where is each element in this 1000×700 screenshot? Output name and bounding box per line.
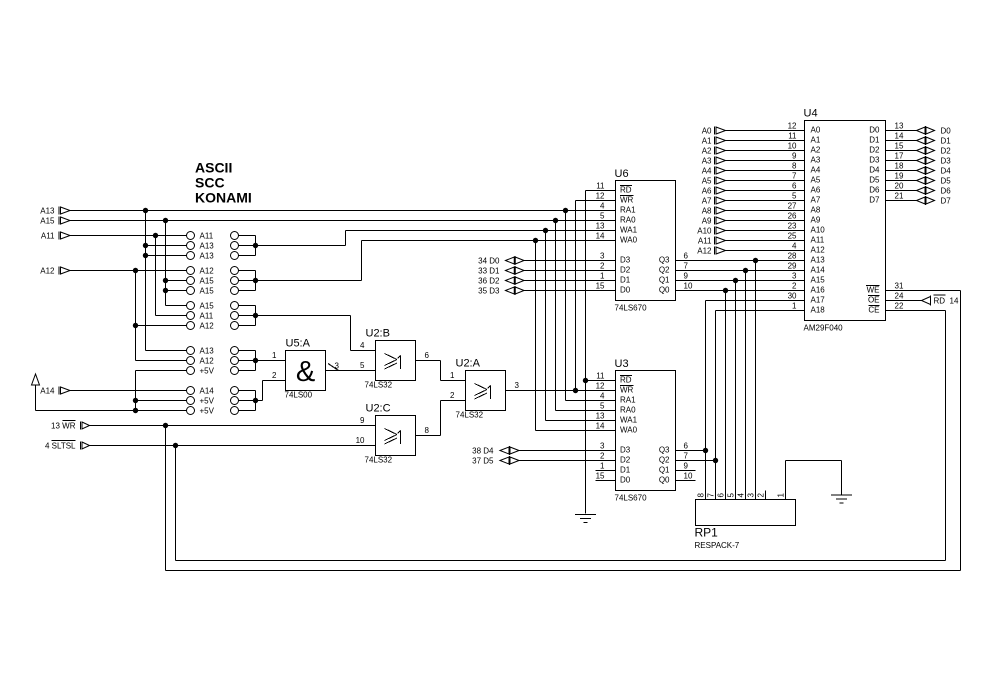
bidirectional terminal D5 at U4 [886, 176, 952, 186]
svg-text:A5: A5 [702, 177, 712, 186]
svg-text:A9: A9 [811, 216, 821, 225]
svg-text:D0: D0 [869, 126, 880, 135]
svg-text:D5: D5 [869, 176, 880, 185]
svg-text:A15: A15 [200, 287, 215, 296]
junction dot WR gate net [573, 388, 578, 393]
svg-text:13 WR: 13 WR [51, 422, 76, 431]
svg-text:23: 23 [788, 222, 797, 231]
wire RA0 drop to U3 pin 5 [556, 221, 616, 411]
svg-text:18: 18 [895, 162, 904, 171]
svg-text:A13: A13 [40, 207, 55, 216]
wire A11 net (terminal to jumper rows) [70, 236, 187, 316]
svg-text:29: 29 [788, 262, 797, 271]
svg-text:D1: D1 [869, 136, 880, 145]
svg-text:KONAMI: KONAMI [195, 190, 252, 206]
svg-text:A8: A8 [811, 206, 821, 215]
svg-text:24: 24 [895, 292, 904, 301]
svg-text:D0: D0 [620, 286, 631, 295]
wire group3 common to U2:B pin 4 [256, 316, 376, 351]
svg-text:37 D5: 37 D5 [472, 457, 494, 466]
svg-text:A1: A1 [811, 136, 821, 145]
svg-text:Q0: Q0 [659, 476, 670, 485]
svg-text:A13: A13 [200, 347, 215, 356]
svg-text:10: 10 [684, 472, 693, 481]
gate U2:B 74LS32 OR [365, 328, 416, 390]
wire U2:A output (WR net) to U6/U3 pin 12 [506, 201, 616, 391]
svg-text:WE: WE [867, 286, 880, 295]
U6 pin numbers [596, 182, 693, 291]
svg-text:U2:C: U2:C [366, 403, 391, 415]
svg-text:6: 6 [684, 442, 689, 451]
svg-text:1: 1 [272, 351, 277, 360]
svg-text:D3: D3 [869, 156, 880, 165]
svg-text:A12: A12 [200, 357, 215, 366]
svg-text:4 SLTSL: 4 SLTSL [45, 442, 76, 451]
input terminal A12 at U4 [697, 247, 804, 256]
svg-text:A3: A3 [811, 156, 821, 165]
svg-text:Q3: Q3 [659, 256, 670, 265]
svg-text:20: 20 [895, 182, 904, 191]
svg-text:RA1: RA1 [620, 396, 636, 405]
svg-text:RESPACK-7: RESPACK-7 [695, 541, 740, 550]
input terminal A5 at U4 [702, 177, 805, 186]
svg-text:D3: D3 [620, 446, 631, 455]
svg-text:OE: OE [868, 296, 880, 305]
bidirectional terminal D7 at U4 [886, 196, 952, 206]
power terminal +5V [32, 374, 40, 411]
svg-text:4: 4 [792, 242, 797, 251]
svg-text:2: 2 [272, 371, 277, 380]
svg-text:A11: A11 [200, 312, 214, 321]
svg-text:D0: D0 [941, 127, 952, 136]
svg-text:74LS32: 74LS32 [456, 411, 484, 420]
svg-text:34 D0: 34 D0 [478, 257, 500, 266]
svg-text:A13: A13 [200, 252, 215, 261]
junction dot WA1 net [543, 228, 548, 233]
svg-text:A10: A10 [697, 227, 712, 236]
svg-text:A4: A4 [702, 167, 712, 176]
wire group1 common to U6 WA1 [256, 231, 616, 246]
svg-text:7: 7 [792, 172, 797, 181]
wire jumper group 2 common [239, 271, 256, 291]
input terminal 13 WR [51, 421, 89, 431]
svg-text:15: 15 [596, 282, 605, 291]
svg-text:8: 8 [697, 493, 706, 498]
resistor pack RP1 RESPACK-7 [695, 500, 796, 551]
title text ASCII SCC KONAMI [195, 160, 252, 206]
svg-text:4: 4 [360, 341, 365, 350]
wire WA0 drop to U3 pin 14 [536, 241, 616, 431]
IC U6 74LS670 register file [615, 168, 676, 313]
svg-text:A11: A11 [200, 232, 214, 241]
svg-text:6: 6 [425, 351, 430, 360]
svg-text:A2: A2 [811, 146, 821, 155]
input terminal A2 at U4 [702, 147, 805, 156]
wire U4 WE to right-edge run [886, 290, 961, 292]
svg-text:WA1: WA1 [620, 226, 638, 235]
svg-text:RD: RD [620, 186, 632, 195]
svg-text:AM29F040: AM29F040 [804, 324, 844, 333]
bidirectional terminal 34 D0 [478, 256, 615, 266]
svg-text:13: 13 [895, 122, 904, 131]
svg-text:1: 1 [792, 302, 797, 311]
svg-text:A6: A6 [811, 186, 821, 195]
svg-text:RD: RD [620, 376, 632, 385]
svg-text:Q2: Q2 [659, 266, 670, 275]
svg-text:9: 9 [360, 416, 365, 425]
wire U5:A output to U2:B pin 5 [326, 370, 376, 372]
junction dot WR terminal net [163, 423, 168, 428]
svg-text:RD: RD [934, 297, 946, 306]
svg-text:12: 12 [596, 382, 605, 391]
wire RP1 pin 1 to ground [786, 461, 842, 500]
svg-text:6: 6 [717, 493, 726, 498]
svg-text:22: 22 [895, 302, 904, 311]
input terminal A12 [40, 267, 70, 276]
svg-text:74LS32: 74LS32 [365, 456, 393, 465]
bidirectional terminal 33 D1 [478, 266, 615, 276]
svg-text:15: 15 [895, 142, 904, 151]
svg-text:A11: A11 [811, 236, 825, 245]
wire U6 Q2 to U4 A14 and RP1 pin 4 [676, 268, 805, 500]
wire jumper group 3 common [239, 306, 256, 326]
svg-text:3: 3 [515, 381, 520, 390]
wire A13 net (terminal to U6 RA1, jumper rows, U5:A) [70, 211, 616, 351]
svg-text:A13: A13 [811, 256, 826, 265]
svg-text:A12: A12 [200, 322, 215, 331]
svg-text:3: 3 [747, 493, 756, 498]
wire SLTSL terminal to U2:C pin 10 and to U4 CE [90, 311, 946, 561]
svg-text:&: & [296, 356, 315, 388]
svg-text:WA0: WA0 [620, 426, 638, 435]
wire WA1 drop to U3 pin 13 [546, 231, 616, 421]
svg-text:15: 15 [596, 472, 605, 481]
junction dot A11 net [153, 233, 158, 238]
svg-text:2: 2 [757, 493, 766, 498]
svg-text:D2: D2 [941, 147, 952, 156]
svg-text:11: 11 [788, 132, 797, 141]
svg-text:D4: D4 [869, 166, 880, 175]
svg-text:1: 1 [450, 371, 455, 380]
junction dot jumper group 3 [253, 313, 258, 318]
svg-text:33 D1: 33 D1 [478, 267, 500, 276]
svg-text:3: 3 [600, 252, 605, 261]
junction dot jumper group 5 [253, 398, 258, 403]
svg-text:WA1: WA1 [620, 416, 638, 425]
bidirectional terminal 38 D4 [472, 446, 615, 456]
svg-text:38 D4: 38 D4 [472, 447, 494, 456]
svg-text:28: 28 [788, 252, 797, 261]
wire jumper group 4 common [239, 351, 256, 371]
junction dot SLTSL terminal net [173, 443, 178, 448]
svg-text:RA0: RA0 [620, 216, 636, 225]
svg-text:A15: A15 [200, 302, 215, 311]
input terminal A6 at U4 [702, 187, 805, 196]
svg-text:A7: A7 [811, 196, 821, 205]
wire U3 Q2 to U4 A18 and RP1 pin 7 [676, 311, 805, 500]
wire RA1 drop to U3 pin 4 [566, 211, 616, 401]
svg-text:25: 25 [788, 232, 797, 241]
bidirectional terminal D6 at U4 [886, 186, 952, 196]
svg-text:RA0: RA0 [620, 406, 636, 415]
junction dot RA1 [563, 208, 568, 213]
svg-text:A15: A15 [811, 276, 826, 285]
junction dot jumper group 2 [253, 278, 258, 283]
IC U3 74LS670 register file [615, 358, 676, 503]
svg-text:2: 2 [600, 452, 605, 461]
junction dot RD net at U3 pin 11 [583, 378, 588, 383]
U5:A output inversion slash [328, 364, 339, 371]
gate U2:A 74LS32 OR [456, 358, 506, 420]
svg-text:17: 17 [895, 152, 904, 161]
svg-text:D2: D2 [620, 456, 631, 465]
svg-text:A2: A2 [702, 147, 712, 156]
svg-text:2: 2 [450, 391, 455, 400]
junction dot jumper group 4 [253, 358, 258, 363]
input terminal A13 [40, 207, 70, 216]
svg-text:3: 3 [600, 442, 605, 451]
svg-text:D6: D6 [941, 187, 952, 196]
svg-text:36 D2: 36 D2 [478, 277, 500, 286]
svg-text:A4: A4 [811, 166, 821, 175]
svg-text:A16: A16 [811, 286, 826, 295]
svg-text:SCC: SCC [195, 175, 225, 191]
svg-text:4: 4 [600, 392, 605, 401]
U3 unconnected output stubs Q1 Q0 [676, 471, 696, 481]
svg-text:+5V: +5V [200, 407, 215, 416]
svg-text:74LS00: 74LS00 [285, 391, 313, 400]
ground symbol at RP1 [831, 495, 852, 503]
svg-text:26: 26 [788, 212, 797, 221]
junction dots +5V net [133, 398, 138, 413]
bidirectional terminal D1 at U4 [886, 136, 952, 146]
svg-text:Q2: Q2 [659, 456, 670, 465]
svg-text:7: 7 [684, 262, 689, 271]
svg-text:7: 7 [707, 493, 716, 498]
wire RD net: U6 pin 11 and U3 pin 11 to ground [586, 191, 616, 514]
jumper pads left column with labels [187, 232, 215, 416]
svg-text:A7: A7 [702, 197, 712, 206]
svg-text:WR: WR [620, 386, 634, 395]
IC U4 AM29F040 flash memory [804, 108, 886, 333]
svg-text:8: 8 [425, 426, 430, 435]
svg-text:A5: A5 [811, 176, 821, 185]
svg-text:11: 11 [596, 372, 605, 381]
svg-text:2: 2 [600, 262, 605, 271]
svg-text:A0: A0 [702, 127, 712, 136]
svg-text:13: 13 [596, 222, 605, 231]
svg-text:D7: D7 [941, 197, 952, 206]
svg-text:U3: U3 [615, 358, 629, 370]
input terminal A15 [40, 217, 70, 226]
svg-text:14: 14 [596, 232, 605, 241]
svg-text:U2:A: U2:A [456, 358, 481, 370]
junction dots A15 net [163, 218, 168, 293]
svg-text:A1: A1 [702, 137, 712, 146]
input terminal A14 [40, 387, 70, 396]
bidirectional terminal 37 D5 [472, 456, 615, 466]
wire group2 common to U6 WA0 [256, 241, 616, 281]
svg-text:Q3: Q3 [659, 446, 670, 455]
svg-text:D5: D5 [941, 177, 952, 186]
svg-text:D1: D1 [620, 276, 631, 285]
svg-text:Q0: Q0 [659, 286, 670, 295]
input terminal A4 at U4 [702, 167, 805, 176]
wire U3 Q3 to U4 A17 and RP1 pin 8 [676, 301, 805, 500]
input terminal A9 at U4 [702, 217, 805, 226]
svg-text:Q1: Q1 [659, 466, 670, 475]
svg-text:D2: D2 [620, 266, 631, 275]
wire A15 net (terminal to U6 RA0, jumper rows) [70, 221, 616, 306]
svg-text:A11: A11 [698, 237, 712, 246]
svg-text:10: 10 [684, 282, 693, 291]
gate U2:C 74LS32 OR [365, 403, 416, 465]
svg-text:A8: A8 [702, 207, 712, 216]
jumper pads right column [231, 232, 239, 415]
svg-text:5: 5 [360, 361, 365, 370]
svg-text:10: 10 [356, 436, 365, 445]
input terminal A11 at U4 [698, 237, 805, 246]
U2:B pin numbers [360, 341, 429, 370]
svg-text:5: 5 [600, 212, 605, 221]
svg-text:RA1: RA1 [620, 206, 636, 215]
junction dot RA0 [553, 218, 558, 223]
svg-text:A12: A12 [200, 267, 215, 276]
svg-text:A15: A15 [40, 217, 55, 226]
svg-text:D7: D7 [869, 196, 880, 205]
wire group5 common to U5:A pin 2 [256, 381, 286, 401]
svg-text:12: 12 [788, 122, 797, 131]
svg-text:8: 8 [792, 162, 797, 171]
svg-text:14: 14 [950, 297, 959, 306]
svg-text:D1: D1 [620, 466, 631, 475]
svg-text:U2:B: U2:B [366, 328, 390, 340]
svg-text:WA0: WA0 [620, 236, 638, 245]
wire U2:C output to U2:A pin 2 [416, 401, 466, 436]
svg-text:A6: A6 [702, 187, 712, 196]
U3 unconnected input stubs D1 D0 [596, 471, 616, 481]
wire jumper group 1 common [239, 236, 256, 256]
wire WR terminal to U2:C pin 9 and to U4 WE [90, 291, 961, 571]
svg-text:5: 5 [792, 192, 797, 201]
svg-text:D3: D3 [941, 157, 952, 166]
svg-text:WR: WR [620, 196, 634, 205]
junction dots A12 net [133, 268, 138, 328]
svg-text:U5:A: U5:A [286, 338, 311, 350]
svg-text:14: 14 [895, 132, 904, 141]
output terminal RD 14 at U4 OE [886, 295, 959, 306]
bidirectional terminal D0 at U4 [886, 126, 952, 136]
svg-text:74LS670: 74LS670 [615, 304, 648, 313]
wire A14 net (terminal to jumper pad) [70, 390, 187, 392]
svg-text:30: 30 [788, 292, 797, 301]
wire U6 Q1 to U4 A15 and RP1 pin 5 [676, 278, 805, 500]
svg-text:10: 10 [788, 142, 797, 151]
svg-text:D2: D2 [869, 146, 880, 155]
wire jumper group 5 common [239, 391, 256, 411]
svg-text:27: 27 [788, 202, 797, 211]
svg-text:A12: A12 [811, 246, 826, 255]
wire U6 Q0 to U4 A16 and RP1 pin 6 [676, 288, 805, 500]
bidirectional terminal 36 D2 [478, 276, 615, 286]
svg-text:A12: A12 [40, 267, 55, 276]
junction dot WA0 net [533, 238, 538, 243]
bidirectional terminal 35 D3 [478, 286, 615, 296]
svg-text:D1: D1 [941, 137, 952, 146]
input terminal A3 at U4 [702, 157, 805, 166]
svg-text:6: 6 [684, 252, 689, 261]
svg-text:35 D3: 35 D3 [478, 287, 500, 296]
input terminal 4 SLTSL [45, 441, 90, 451]
input terminal A7 at U4 [702, 197, 805, 206]
svg-text:9: 9 [684, 272, 689, 281]
U3 pin numbers [596, 372, 693, 481]
svg-text:74LS32: 74LS32 [365, 381, 393, 390]
RP1 pin numbers [697, 493, 786, 498]
wire U6 Q3 to U4 A13 and RP1 pin 3 [676, 258, 805, 500]
input terminal A10 at U4 [697, 227, 804, 236]
svg-text:A18: A18 [811, 306, 826, 315]
svg-text:+5V: +5V [200, 367, 215, 376]
svg-text:3: 3 [792, 272, 797, 281]
svg-text:A15: A15 [200, 277, 215, 286]
U2:A pin numbers [450, 371, 519, 400]
bidirectional terminal D3 at U4 [886, 156, 952, 166]
svg-text:7: 7 [684, 452, 689, 461]
svg-text:A13: A13 [200, 242, 215, 251]
svg-text:A0: A0 [811, 126, 821, 135]
input terminal A0 at U4 [702, 127, 805, 136]
svg-text:1: 1 [777, 493, 786, 498]
svg-text:1: 1 [600, 462, 605, 471]
svg-text:11: 11 [596, 182, 605, 191]
svg-text:4: 4 [600, 202, 605, 211]
bidirectional terminal D4 at U4 [886, 166, 952, 176]
svg-text:D3: D3 [620, 256, 631, 265]
svg-text:31: 31 [895, 282, 904, 291]
svg-text:13: 13 [596, 412, 605, 421]
svg-text:A14: A14 [40, 387, 55, 396]
wire +5V net (power arrow to jumper rows) [36, 371, 187, 411]
input terminal A8 at U4 [702, 207, 805, 216]
svg-text:4: 4 [737, 493, 746, 498]
svg-text:74LS670: 74LS670 [615, 494, 648, 503]
svg-text:12: 12 [596, 192, 605, 201]
svg-text:A3: A3 [702, 157, 712, 166]
svg-text:+5V: +5V [200, 397, 215, 406]
ground symbol below U3 [575, 515, 596, 523]
U5:A pin numbers [272, 351, 339, 380]
bidirectional terminal D2 at U4 [886, 146, 952, 156]
junction dots A13 net [143, 208, 148, 258]
op-amp-style gate U5:A 74LS00 NAND [285, 338, 326, 400]
svg-text:D4: D4 [941, 167, 952, 176]
svg-text:9: 9 [684, 462, 689, 471]
svg-text:5: 5 [727, 493, 736, 498]
svg-text:19: 19 [895, 172, 904, 181]
svg-text:U4: U4 [804, 108, 818, 120]
svg-text:D6: D6 [869, 186, 880, 195]
svg-text:5: 5 [600, 402, 605, 411]
svg-text:9: 9 [792, 152, 797, 161]
svg-text:A9: A9 [702, 217, 712, 226]
svg-text:RP1: RP1 [695, 526, 719, 540]
svg-text:6: 6 [792, 182, 797, 191]
svg-text:A14: A14 [811, 266, 826, 275]
junction dot jumper group 1 [253, 243, 258, 248]
svg-text:A11: A11 [41, 232, 55, 241]
wire group4 common to U5:A pin 1 [256, 360, 286, 362]
